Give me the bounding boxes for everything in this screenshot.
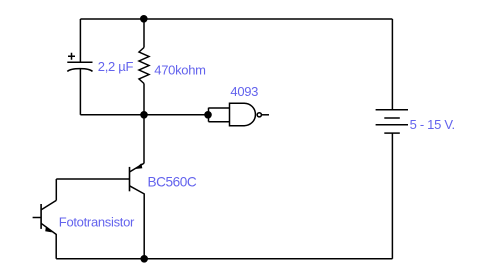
- svg-text:Fototransistor: Fototransistor: [59, 215, 135, 230]
- svg-text:4093: 4093: [230, 84, 258, 99]
- svg-text:BC560C: BC560C: [148, 175, 197, 190]
- svg-text:5 - 15 V.: 5 - 15 V.: [410, 117, 455, 132]
- svg-text:470kohm: 470kohm: [154, 63, 205, 78]
- svg-text:2,2 µF: 2,2 µF: [98, 59, 134, 74]
